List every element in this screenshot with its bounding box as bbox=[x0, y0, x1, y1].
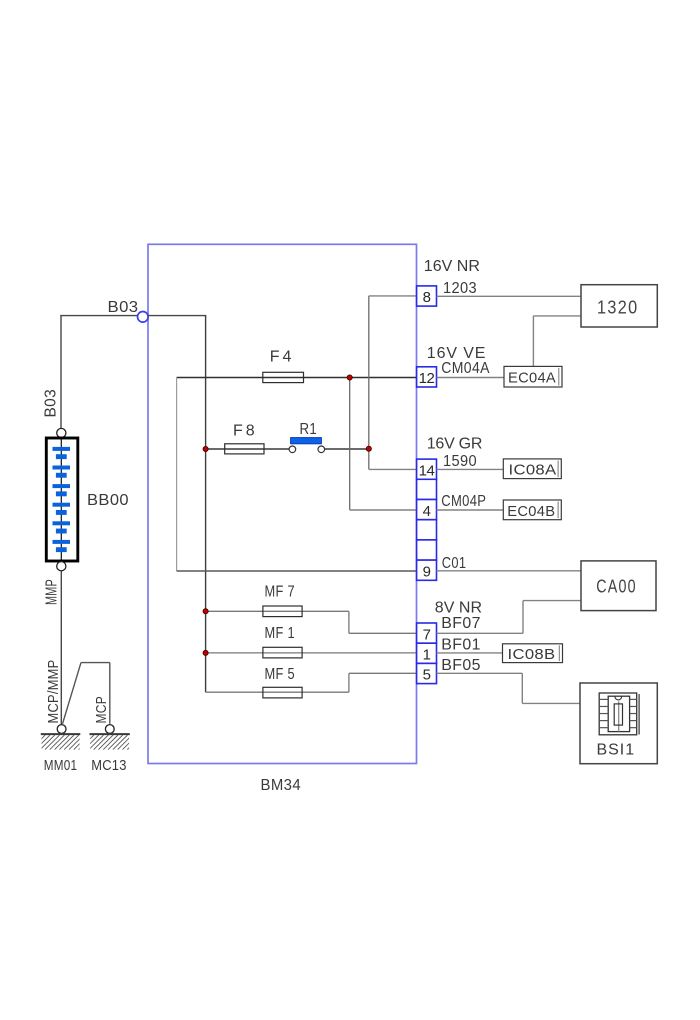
svg-text:EC04B: EC04B bbox=[507, 503, 555, 520]
svg-text:MF 7: MF 7 bbox=[265, 584, 296, 601]
svg-text:7: 7 bbox=[423, 626, 431, 643]
battery BB00 body bbox=[46, 438, 78, 561]
pin 1 box bbox=[417, 643, 437, 663]
wire vertical x349.7 to pin 4 bbox=[349, 378, 351, 511]
wire battery to ground MM01 bbox=[60, 571, 62, 725]
component box CA00 bbox=[581, 561, 656, 611]
svg-text:MM01: MM01 bbox=[44, 757, 78, 774]
wire stub to pin 7 bbox=[349, 632, 417, 634]
svg-text:B03: B03 bbox=[43, 389, 60, 418]
BSI1 icon left pin 5 bbox=[599, 727, 608, 729]
wire MF5 line bbox=[206, 691, 349, 693]
ECU box BM34 outline bbox=[148, 244, 417, 763]
component box EC04A bbox=[504, 366, 562, 387]
ground MC13 terminal circle bbox=[105, 725, 114, 734]
battery BB00 short plate 6 bbox=[56, 547, 67, 552]
pin 5 box bbox=[417, 663, 437, 683]
svg-text:1590: 1590 bbox=[443, 453, 477, 470]
wire into BSI1 bbox=[522, 702, 580, 704]
svg-text:CM04P: CM04P bbox=[441, 493, 486, 510]
junction F4/pin4 bbox=[347, 375, 352, 380]
BSI1 icon right pin 1 bbox=[630, 698, 637, 700]
wire ground strap horizontal bbox=[81, 662, 110, 664]
BSI1 icon notch bbox=[615, 697, 622, 700]
component box 1320 bbox=[581, 285, 657, 327]
battery BB00 long plate 4 bbox=[53, 503, 71, 507]
connector empty box bbox=[417, 520, 437, 540]
svg-text:R1: R1 bbox=[300, 421, 318, 438]
junction MF7 feed bbox=[203, 609, 208, 614]
BSI1 icon slot bbox=[614, 704, 622, 725]
svg-text:BSI1: BSI1 bbox=[597, 741, 635, 758]
BSI1 icon center line bbox=[618, 701, 620, 731]
svg-text:BF05: BF05 bbox=[441, 657, 481, 674]
battery BB00 short plate 3 bbox=[56, 491, 67, 496]
svg-text:1320: 1320 bbox=[597, 298, 639, 318]
svg-text:BM34: BM34 bbox=[261, 777, 302, 794]
BSI1 icon chip body bbox=[608, 696, 629, 731]
component box EC04B bbox=[503, 500, 561, 520]
relay contact R1 blade bbox=[291, 438, 322, 444]
BSI1 icon right rail bbox=[638, 694, 640, 735]
wire F8 line from feed bbox=[206, 448, 290, 450]
battery BB00 long plate 6 bbox=[53, 540, 71, 544]
wire battery feed vertical x61 bbox=[60, 316, 62, 429]
wire B03 horizontal right segment into BM34 bbox=[148, 315, 206, 317]
BSI1 icon right pin 3 bbox=[630, 713, 637, 715]
svg-text:BF01: BF01 bbox=[441, 636, 481, 653]
wire pin 12 to EC04A bbox=[437, 377, 505, 379]
wire stub to pin 14 bbox=[369, 468, 417, 470]
svg-text:8: 8 bbox=[423, 289, 431, 306]
wire B03 horizontal left segment bbox=[60, 315, 137, 317]
wire stub to pin 8 bbox=[369, 295, 417, 297]
svg-text:BB00: BB00 bbox=[87, 492, 129, 509]
svg-text:1203: 1203 bbox=[443, 280, 477, 297]
component box IC08A bbox=[503, 459, 561, 479]
wire pin 8 to 1320 bbox=[437, 295, 582, 297]
svg-text:5: 5 bbox=[423, 667, 431, 684]
wire MF7 line bbox=[206, 610, 349, 612]
svg-text:16V NR: 16V NR bbox=[424, 258, 481, 275]
battery BB00 bottom terminal circle bbox=[57, 562, 66, 571]
wire main feed vertical x205.6 bbox=[205, 316, 207, 693]
wire ground strap vertical to MC13 bbox=[109, 663, 111, 724]
junction F8 feed bbox=[203, 446, 208, 451]
svg-text:CM04A: CM04A bbox=[441, 360, 490, 377]
battery BB00 long plate 5 bbox=[53, 521, 71, 525]
wire into CA00 bbox=[523, 600, 581, 602]
svg-text:IC08B: IC08B bbox=[508, 646, 556, 663]
junction MF1 feed bbox=[203, 650, 208, 655]
connector empty box bbox=[417, 540, 437, 560]
wire R1 output bbox=[325, 448, 369, 450]
svg-text:9: 9 bbox=[423, 563, 431, 580]
svg-text:8V NR: 8V NR bbox=[435, 599, 483, 616]
wire stub to pin 4 bbox=[350, 509, 417, 511]
wire EC04A to 1320 horizontal bbox=[533, 315, 581, 317]
junction R1 output bbox=[366, 446, 371, 451]
pin 12 box bbox=[417, 367, 437, 387]
battery BB00 short plate 5 bbox=[56, 529, 67, 534]
svg-text:4: 4 bbox=[423, 503, 431, 520]
svg-text:1: 1 bbox=[423, 647, 431, 664]
connector empty box bbox=[417, 479, 437, 499]
BSI1 icon left pin 1 bbox=[599, 698, 608, 700]
fuse MF5 bbox=[263, 687, 302, 698]
fuse MF7 bbox=[263, 606, 302, 617]
svg-text:MMP: MMP bbox=[43, 579, 60, 605]
svg-text:B03: B03 bbox=[108, 299, 139, 316]
wire pin 7 riser bbox=[522, 601, 524, 634]
battery BB00 short plate 4 bbox=[56, 510, 67, 515]
fuse F8 bbox=[225, 444, 264, 454]
svg-text:C01: C01 bbox=[442, 555, 467, 572]
BSI1 icon left pin 2 bbox=[599, 705, 608, 707]
wire to pin 9 bbox=[177, 570, 417, 572]
wire pin 7 horizontal bbox=[437, 632, 524, 634]
fuse MF1 bbox=[263, 647, 302, 658]
wire pin 5 drop bbox=[521, 673, 523, 703]
svg-text:EC04A: EC04A bbox=[508, 370, 556, 387]
BSI1 icon left pin 3 bbox=[599, 713, 608, 715]
pin 14 box bbox=[417, 459, 437, 479]
wire F4 line to pin 12 bbox=[177, 377, 417, 379]
pin 9 box bbox=[417, 560, 437, 580]
pin 8 box bbox=[417, 286, 437, 306]
svg-text:BF07: BF07 bbox=[441, 615, 481, 632]
svg-text:16V GR: 16V GR bbox=[427, 436, 483, 453]
svg-text:CA00: CA00 bbox=[596, 576, 637, 596]
svg-text:MC13: MC13 bbox=[91, 757, 127, 774]
battery BB00 long plate 2 bbox=[53, 466, 71, 470]
BSI1 icon right pin 4 bbox=[630, 720, 637, 722]
battery BB00 internal wire bbox=[60, 438, 62, 562]
svg-text:14: 14 bbox=[419, 462, 435, 479]
ground MC13 bar bbox=[90, 733, 130, 735]
battery BB00 top terminal circle bbox=[57, 428, 66, 437]
BSI1 icon right pin 2 bbox=[630, 705, 637, 707]
wire pin 14 to IC08A bbox=[437, 468, 504, 470]
battery BB00 short plate 2 bbox=[56, 473, 67, 478]
wire MF1 line to pin 1 bbox=[206, 652, 417, 654]
battery BB00 long plate 1 bbox=[53, 447, 71, 451]
relay contact R1 left terminal bbox=[289, 446, 296, 453]
wire pin 9 to CA00 bbox=[437, 570, 582, 572]
node B03 connector circle bbox=[138, 312, 149, 323]
battery BB00 short plate 1 bbox=[56, 454, 67, 459]
pin 4 box bbox=[417, 500, 437, 520]
wire pin 1 to IC08B bbox=[437, 652, 503, 654]
component box BSI1 bbox=[580, 683, 657, 764]
ground MM01 terminal circle bbox=[57, 725, 66, 734]
relay contact R1 right terminal bbox=[318, 446, 325, 453]
svg-text:12: 12 bbox=[419, 370, 435, 387]
pin 7 box bbox=[417, 623, 437, 643]
wire MF5 rise to pin 5 level bbox=[348, 673, 350, 692]
BSI1 icon left pin 4 bbox=[599, 720, 608, 722]
BSI1 icon outer frame bbox=[599, 693, 637, 735]
svg-text:MF 5: MF 5 bbox=[265, 666, 296, 683]
wire ground strap diagonal to MM01 bbox=[63, 663, 82, 724]
wire pin 4 to EC04B bbox=[437, 509, 504, 511]
wire MF7 drop to pin 7 level bbox=[348, 611, 350, 633]
wire pin 5 horizontal bbox=[437, 672, 523, 674]
svg-text:MCP/MMP: MCP/MMP bbox=[45, 660, 62, 724]
wire EC04A to 1320 vertical bbox=[532, 316, 534, 367]
battery BB00 long plate 3 bbox=[53, 484, 71, 488]
BSI1 icon right pin 5 bbox=[630, 727, 637, 729]
component box IC08B bbox=[503, 644, 563, 663]
svg-text:MCP: MCP bbox=[93, 696, 110, 724]
wire loop vertical x176.6 bbox=[176, 378, 178, 572]
wire stub to pin 5 bbox=[349, 672, 417, 674]
fuse F4 bbox=[263, 372, 304, 382]
svg-text:MF 1: MF 1 bbox=[265, 625, 296, 642]
wire vertical x368.8 pin8/pin14 bbox=[368, 296, 370, 470]
svg-text:IC08A: IC08A bbox=[509, 462, 557, 479]
ground MM01 bar bbox=[41, 733, 81, 735]
